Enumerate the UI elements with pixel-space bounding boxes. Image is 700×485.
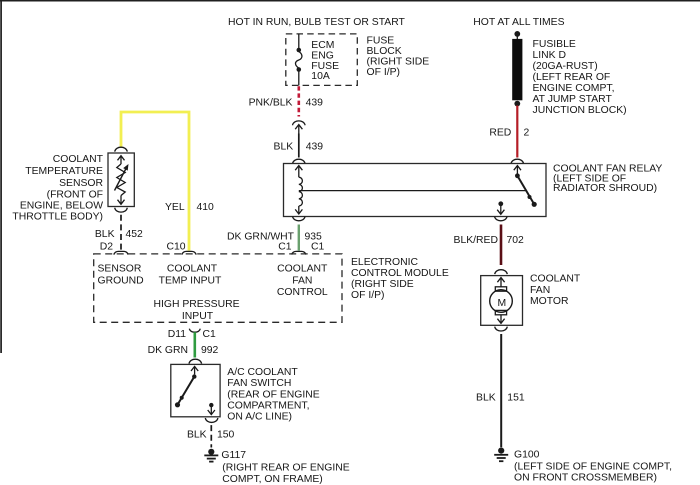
ECM pin function labels — [98, 264, 329, 322]
svg-text:CONTROL MODULE: CONTROL MODULE — [351, 268, 449, 279]
svg-text:AT JUMP START: AT JUMP START — [533, 94, 613, 105]
svg-text:MOTOR: MOTOR — [530, 296, 569, 307]
ECM label — [351, 257, 449, 301]
svg-text:C1: C1 — [311, 241, 325, 252]
svg-text:M: M — [497, 298, 506, 309]
motor M1 COOLANT FAN MOTOR — [481, 276, 523, 326]
svg-text:COOLANT: COOLANT — [277, 264, 328, 275]
svg-text:G117: G117 — [221, 450, 246, 461]
svg-text:COOLANT: COOLANT — [167, 264, 218, 275]
wire label BLK 452 — [95, 229, 143, 240]
svg-text:ENGINE COMPT,: ENGINE COMPT, — [533, 83, 615, 94]
wire DK GRN 992 — [194, 332, 197, 357]
svg-text:ON FRONT CROSSMEMBER): ON FRONT CROSSMEMBER) — [514, 473, 657, 484]
relay connector arc (switch common pin) — [511, 159, 524, 163]
svg-text:151: 151 — [507, 392, 525, 403]
ground G117 — [204, 449, 218, 462]
wire YEL 410 — [121, 112, 189, 251]
ground G100 — [494, 448, 508, 462]
svg-text:BLK: BLK — [95, 229, 115, 240]
wire BLK 150 — [210, 425, 212, 447]
svg-text:ECM: ECM — [311, 40, 334, 51]
wire label DK GRN/WHT 935 — [227, 232, 322, 243]
page top border — [0, 0, 700, 2]
wire RED 2 — [516, 106, 518, 158]
svg-text:G100: G100 — [514, 450, 540, 461]
svg-text:HIGH PRESSURE: HIGH PRESSURE — [153, 299, 239, 310]
svg-text:SENSOR: SENSOR — [59, 178, 103, 189]
svg-text:TEMPERATURE: TEMPERATURE — [25, 166, 103, 177]
relay connector arc (coil pin) — [293, 159, 306, 163]
svg-text:FAN: FAN — [292, 275, 312, 286]
svg-text:D2: D2 — [100, 242, 114, 253]
svg-text:INPUT: INPUT — [182, 311, 214, 322]
svg-text:FUSIBLE: FUSIBLE — [533, 39, 576, 50]
wire BLK 439 — [298, 134, 300, 158]
svg-text:439: 439 — [306, 142, 324, 153]
inline connector (female arc + male arrow) — [293, 121, 306, 134]
page left border — [0, 0, 2, 353]
svg-text:FUSE: FUSE — [311, 61, 339, 72]
A/C switch bottom connector cup — [205, 418, 218, 422]
wire label BLK 439 — [274, 142, 324, 153]
svg-text:JUNCTION BLOCK): JUNCTION BLOCK) — [533, 105, 627, 116]
relay bottom connector cup (switch output) — [495, 216, 508, 220]
relay K1 COOLANT FAN RELAY box — [284, 164, 547, 217]
relay coil — [295, 166, 302, 214]
ECM U1 box — [94, 254, 342, 322]
svg-text:FAN: FAN — [530, 285, 550, 296]
connector pins D2 C10 — [100, 242, 186, 253]
wire label BLK 150 — [187, 429, 235, 440]
ground G117 label — [221, 450, 349, 485]
svg-text:RED: RED — [489, 127, 511, 138]
svg-text:FAN SWITCH: FAN SWITCH — [227, 378, 291, 389]
svg-text:ON A/C LINE): ON A/C LINE) — [227, 412, 292, 423]
svg-text:YEL: YEL — [165, 202, 185, 213]
svg-text:COMPT, ON FRAME): COMPT, ON FRAME) — [222, 474, 322, 485]
fuse F1 ECM ENG FUSE 10A — [295, 34, 301, 85]
svg-text:DK GRN: DK GRN — [148, 345, 188, 356]
svg-text:HOT AT ALL TIMES: HOT AT ALL TIMES — [473, 17, 564, 28]
fuse value label — [311, 40, 339, 82]
relay internal wire — [299, 190, 527, 192]
relay label — [553, 164, 662, 195]
svg-text:BLK: BLK — [187, 429, 207, 440]
fuse block location label — [367, 36, 430, 78]
wire label PNK/BLK 439 — [249, 97, 324, 108]
fusible link D — [512, 31, 522, 107]
svg-text:(LEFT REAR OF: (LEFT REAR OF — [533, 72, 611, 83]
svg-text:452: 452 — [126, 229, 144, 240]
svg-text:702: 702 — [507, 235, 525, 246]
svg-text:2: 2 — [524, 127, 530, 138]
connector pins D11 C1 — [168, 329, 216, 340]
svg-text:(REAR OF ENGINE: (REAR OF ENGINE — [227, 389, 319, 400]
svg-text:150: 150 — [217, 429, 235, 440]
wire DK GRN/WHT 935 — [298, 225, 300, 251]
svg-text:(FRONT OF: (FRONT OF — [47, 189, 103, 200]
wire label DK GRN 992 — [148, 345, 219, 356]
relay bottom connector cup (coil) — [293, 216, 306, 220]
svg-text:ELECTRONIC: ELECTRONIC — [351, 257, 418, 268]
wire label BLK 151 — [476, 392, 525, 403]
relay output terminal — [497, 201, 504, 214]
ECM entry bracket C10 — [183, 252, 195, 255]
relay switch — [514, 166, 537, 207]
coolant temperature sensor RT1 — [108, 153, 134, 207]
svg-text:SENSOR: SENSOR — [98, 264, 142, 275]
svg-text:RADIATOR SHROUD): RADIATOR SHROUD) — [553, 183, 657, 194]
svg-text:(20GA-RUST): (20GA-RUST) — [533, 61, 598, 72]
svg-text:C1: C1 — [203, 329, 217, 340]
svg-text:THROTTLE BODY): THROTTLE BODY) — [12, 212, 103, 223]
svg-text:GROUND: GROUND — [98, 275, 144, 286]
svg-text:CONTROL: CONTROL — [277, 287, 328, 298]
ECM entry bracket C1 — [293, 252, 305, 255]
wire BLK/RED 702 — [500, 225, 503, 266]
svg-text:439: 439 — [306, 97, 324, 108]
svg-text:10A: 10A — [311, 71, 330, 82]
svg-text:COOLANT: COOLANT — [530, 274, 581, 285]
fuse block box — [286, 34, 358, 86]
svg-text:(RIGHT SIDE: (RIGHT SIDE — [367, 56, 430, 67]
svg-text:BLK/RED: BLK/RED — [454, 235, 498, 246]
ECM entry bracket D2 — [115, 252, 127, 255]
connector pins C1 C1 — [278, 241, 324, 252]
svg-text:410: 410 — [197, 202, 215, 213]
svg-text:(LEFT SIDE OF ENGINE COMPT,: (LEFT SIDE OF ENGINE COMPT, — [514, 462, 672, 473]
svg-text:C10: C10 — [166, 242, 185, 253]
motor label — [530, 274, 581, 307]
svg-text:BLOCK: BLOCK — [367, 46, 402, 57]
sensor label — [12, 154, 103, 223]
svg-text:ENGINE, BELOW: ENGINE, BELOW — [20, 200, 103, 211]
ground G100 label — [514, 450, 672, 484]
svg-text:LINK D: LINK D — [533, 50, 567, 61]
wire label BLK/RED 702 — [454, 235, 525, 246]
sensor connector arc — [115, 147, 128, 151]
svg-text:992: 992 — [201, 345, 219, 356]
svg-text:C1: C1 — [278, 241, 292, 252]
A/C switch connector arc — [189, 359, 202, 363]
svg-text:D11: D11 — [168, 329, 187, 340]
svg-text:ENG: ENG — [311, 50, 334, 61]
svg-text:COOLANT: COOLANT — [53, 154, 104, 165]
svg-text:(RIGHT SIDE: (RIGHT SIDE — [351, 279, 414, 290]
svg-text:OF I/P): OF I/P) — [351, 290, 384, 301]
wire label YEL 410 — [165, 202, 214, 213]
svg-text:A/C COOLANT: A/C COOLANT — [227, 367, 298, 378]
A/C switch label — [227, 367, 319, 423]
svg-text:FUSE: FUSE — [367, 36, 395, 47]
wire BLK 452 — [120, 215, 122, 251]
wire PNK/BLK 439 — [297, 86, 300, 116]
svg-text:OF I/P): OF I/P) — [367, 67, 400, 78]
sensor bottom connector cup — [115, 208, 128, 212]
svg-text:PNK/BLK: PNK/BLK — [249, 97, 293, 108]
svg-text:COMPARTMENT,: COMPARTMENT, — [227, 401, 309, 412]
svg-text:(RIGHT REAR OF ENGINE: (RIGHT REAR OF ENGINE — [222, 462, 349, 473]
A/C coolant fan switch S1 — [171, 364, 220, 416]
svg-text:BLK: BLK — [274, 142, 294, 153]
fusible link label — [533, 39, 627, 116]
wire label RED 2 — [489, 127, 529, 138]
svg-text:TEMP INPUT: TEMP INPUT — [159, 275, 222, 286]
svg-text:HOT IN RUN, BULB TEST OR START: HOT IN RUN, BULB TEST OR START — [228, 17, 406, 28]
wire BLK 151 — [500, 334, 502, 447]
svg-text:BLK: BLK — [476, 392, 496, 403]
motor bottom connector cup — [495, 327, 508, 331]
ECM exit bracket D11 — [189, 329, 200, 333]
motor connector arc — [495, 270, 508, 274]
